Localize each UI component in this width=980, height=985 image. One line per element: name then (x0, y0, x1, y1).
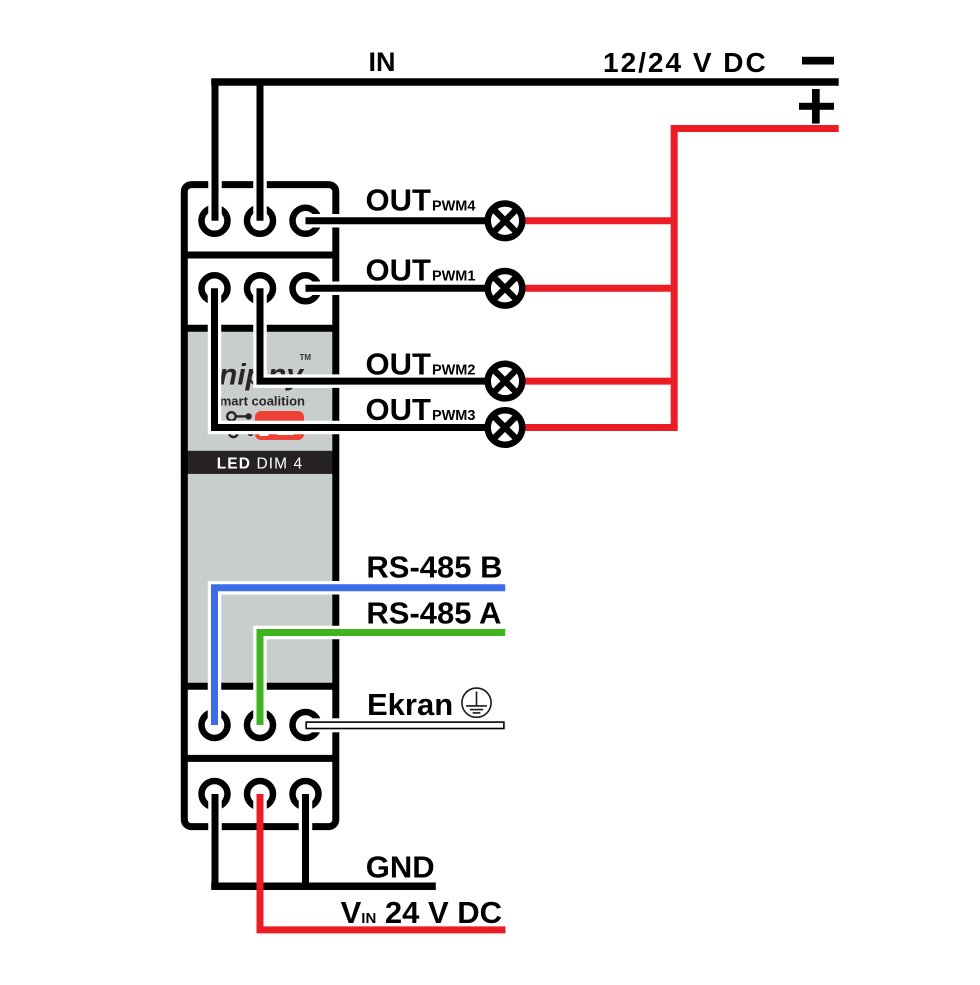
wire GND feed 2 casing (299, 794, 313, 886)
wire OUT PWM4 (306, 217, 506, 224)
svg-text:LED DIM 4: LED DIM 4 (217, 455, 304, 472)
svg-text:smart coalition: smart coalition (213, 394, 306, 409)
logo key icon top (227, 412, 246, 420)
logo red badge (255, 411, 304, 440)
wire OUT PWM4 casing (306, 214, 501, 228)
LED DIM 4 label bar (184, 451, 336, 474)
protective earth symbol (462, 688, 491, 717)
wire IN feed 1 (212, 82, 219, 221)
module U1 outline (184, 185, 335, 827)
polarity plus symbol (799, 103, 834, 110)
terminal row3 pin1 (202, 712, 228, 738)
wire OUT PWM1 casing (306, 282, 501, 296)
lamp L4 (OUT PWM4) (488, 204, 523, 239)
terminal row3 pin3 (293, 712, 319, 738)
lamp L1 (OUT PWM1) (488, 271, 523, 306)
module divider 2 (181, 325, 339, 332)
terminal row2 pin3 (293, 275, 319, 301)
svg-text:IN: IN (369, 47, 396, 77)
lamp L3 (OUT PWM3) (488, 410, 523, 445)
wire +12/24V branch PWM1 (red) (520, 285, 676, 292)
svg-text:RS-485 B: RS-485 B (366, 550, 502, 585)
wire RS-485 A casing (260, 633, 505, 726)
module divider 4 (181, 755, 339, 762)
terminal row1 pin1 (202, 208, 228, 234)
wire GND feed 1 casing (208, 794, 222, 886)
wire OUT PWM1 (306, 285, 506, 292)
wire Vin 24V (red) (260, 794, 506, 930)
wire OUT PWM2 (260, 288, 505, 381)
terminal row4 pin3 (293, 781, 319, 807)
wire GND bus (211, 883, 436, 891)
module divider 3 (181, 683, 339, 690)
logo key icon bottom (229, 429, 248, 437)
polarity minus symbol (802, 57, 834, 65)
terminal row2 pin2 (247, 275, 273, 301)
wire OUT PWM3 (215, 288, 506, 427)
lamp L2 (OUT PWM2) (488, 364, 523, 399)
terminal row4 pin1 (202, 781, 228, 807)
terminal row2 pin1 (202, 275, 228, 301)
svg-text:RS-485 A: RS-485 A (366, 596, 501, 631)
module divider 1 (181, 252, 339, 259)
wire RS-485 B (blue) (215, 588, 506, 725)
wire +12/24V branch PWM2 (red) (520, 378, 676, 385)
terminal row1 pin3 (293, 208, 319, 234)
wire OUT PWM3 casing (215, 288, 501, 427)
wire Vin 24V casing (ring break only) (253, 794, 267, 816)
module U1 body (white fill) (181, 181, 339, 830)
wire IN feed 2 (257, 82, 264, 221)
svg-text:12/24 V DC: 12/24 V DC (603, 47, 768, 78)
wire RS-485 A (green) (260, 633, 505, 726)
module U1 gray face (181, 328, 339, 686)
wire IN feed 1 casing (208, 80, 222, 221)
wire +12/24V bus (red) (505, 129, 839, 428)
wire Ekran casing (302, 718, 508, 732)
wire IN bus (211, 78, 839, 86)
wire Ekran (shield, white) (305, 721, 504, 729)
wire GND feed 1 (212, 794, 219, 886)
wire GND feed 2 (302, 794, 309, 886)
terminal row4 pin2 (247, 781, 273, 807)
svg-text:GND: GND (366, 849, 435, 884)
wire +12/24V branch PWM4 (red) (520, 217, 676, 224)
svg-text:Ekran: Ekran (367, 687, 453, 722)
terminal row3 pin2 (247, 712, 273, 738)
wire RS-485 B casing (215, 588, 506, 725)
wire IN feed 2 casing (253, 80, 267, 221)
terminal row1 pin2 (247, 208, 273, 234)
wire OUT PWM2 casing (260, 288, 500, 381)
